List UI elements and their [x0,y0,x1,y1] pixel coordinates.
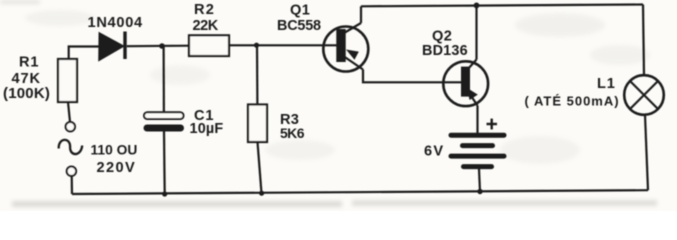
capacitor C1 [144,112,185,131]
label battery polarity + [487,119,498,130]
wire R2 to Q1 base [229,44,337,46]
wire R1 top to diode anode [69,47,100,60]
transistor Q2 BD136 [443,60,488,107]
svg-text:BC558: BC558 [277,18,321,34]
wire Q2 emitter to battery [476,106,478,134]
svg-text:R2: R2 [194,2,215,18]
svg-text:Q1: Q1 [290,2,310,18]
svg-text:( ATÉ 500mA): ( ATÉ 500mA) [525,93,620,108]
svg-text:5K6: 5K6 [280,125,305,141]
resistor R2 [189,35,229,56]
AC source sine symbol [59,140,83,154]
label Q1 BC558 [277,2,321,34]
battery B1 6V [451,135,504,166]
svg-text:6V: 6V [424,143,444,159]
wire bottom rail [72,190,648,194]
svg-text:22K: 22K [193,18,219,34]
label Q2 BD136 [422,28,468,59]
label 110 OU 220V [91,142,138,176]
svg-text:10µF: 10µF [190,121,224,137]
wire R3 top lead [256,45,259,104]
node battery/bottom rail [477,189,482,194]
svg-text:1N4004: 1N4004 [88,15,144,31]
label R3 value 5K6 [280,112,305,141]
node top rail junction [474,3,480,9]
lamp L1 [624,75,664,115]
wire Q1 collector riser [360,6,362,23]
wire lamp to bottom rail [645,115,648,190]
label L1 (ATE 500mA) [525,76,620,108]
label D1 1N4004 [88,15,144,31]
svg-text:BD136: BD136 [422,43,468,59]
wire R1 bottom lead [68,102,70,122]
wire AC bottom terminal to bottom rail [71,176,74,194]
wire diode cathode to R2 [127,45,189,48]
diode D1 1N4004 [99,32,127,61]
svg-text:220V: 220V [97,160,137,176]
svg-text:L1: L1 [597,76,616,92]
wire Q1 emitter to Q2 base [363,70,461,83]
node R3/bottom rail [259,191,264,196]
wire Q2 collector riser [475,5,477,59]
wire C1 bottom lead [163,132,166,195]
label R2 value 22K [193,2,219,34]
wire C1 top lead [163,46,165,112]
resistor R1 [58,59,77,102]
label R1 value 47K (100K) [3,55,50,103]
svg-text:110 OU: 110 OU [91,142,138,157]
wire top rail [361,5,643,7]
label C1 value 10uF [190,108,224,137]
node junction R2/R3 [254,43,259,48]
resistor R3 [248,105,267,143]
transistor Q1 BC558 [323,23,368,72]
wire top rail to lamp [643,5,644,76]
terminal AC top [66,122,75,131]
wire R3 bottom lead [258,142,262,193]
wire battery to bottom rail [479,169,480,192]
label battery 6V [424,143,444,159]
node junction diode/C1 [159,43,165,49]
terminal AC bottom [67,167,76,176]
svg-text:R1: R1 [19,55,39,71]
node C1/bottom rail [162,191,167,196]
svg-text:(100K): (100K) [3,85,50,102]
